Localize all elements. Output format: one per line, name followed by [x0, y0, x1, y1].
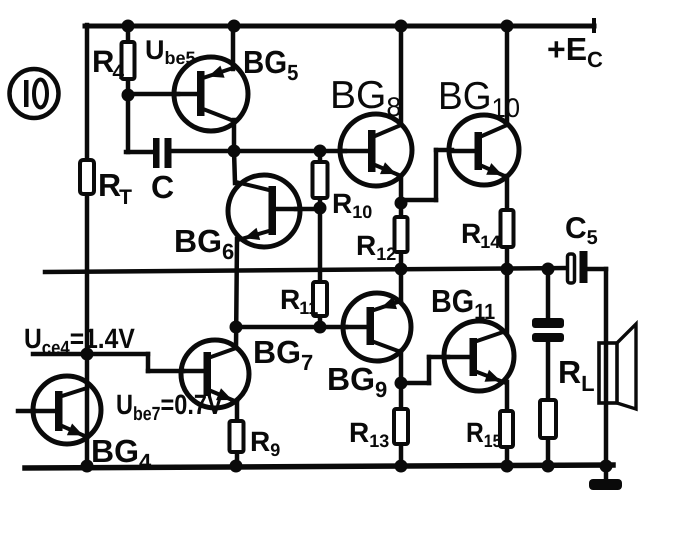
svg-text:RL: RL — [558, 354, 595, 396]
junction bottom rail at R9 — [230, 460, 243, 473]
wire R10/R11 column — [318, 151, 323, 327]
wire BG5 emitter lead from rail — [231, 25, 236, 69]
wire BG8 emitter lead to R12 — [399, 176, 404, 217]
wire C to BG8 base line — [171, 149, 345, 154]
transistor BG6 (mirrored) — [228, 175, 300, 247]
junction Uce4 line at left column — [81, 348, 94, 361]
resistor RL (Zobel) — [540, 400, 556, 438]
junction R10 top / BG8 base — [314, 145, 327, 158]
figure number 10 — [10, 69, 59, 118]
resistor R4 — [122, 42, 135, 79]
wire BG5 collector lead down — [232, 120, 237, 151]
wire bottom ground rail — [25, 465, 613, 468]
junction R4 bottom / BG5 base — [122, 89, 135, 102]
wire BG5 junction to BG6 collector — [234, 151, 235, 183]
junction R12 bottom at mid rail — [395, 263, 408, 276]
wire R11 to BG9 base line — [236, 325, 346, 330]
junction top rail at BG8 collector — [395, 20, 408, 33]
wire Uce4 line to BG7 base — [33, 354, 183, 371]
svg-text:BG6: BG6 — [174, 223, 234, 264]
wire BG9 collector down through R13 to ground rail — [399, 351, 404, 466]
junction Zobel branch at mid rail — [542, 263, 555, 276]
junction bottom rail at speaker — [600, 460, 613, 473]
capacitor C — [153, 138, 172, 168]
resistor R10 — [313, 162, 328, 198]
junction R14 bottom at mid rail — [501, 263, 514, 276]
svg-text:+EC: +EC — [547, 31, 603, 72]
svg-text:BG7: BG7 — [253, 334, 313, 375]
wire R4 column — [126, 25, 154, 152]
wire left vertical (RT column) — [85, 25, 90, 466]
svg-text:R13: R13 — [349, 417, 389, 451]
svg-text:BG5: BG5 — [243, 44, 298, 85]
svg-text:R14: R14 — [461, 218, 500, 252]
wire BG6 emitter down to BG7 collector junction — [236, 239, 237, 348]
resistor R14 — [501, 210, 514, 247]
svg-text:Ube7=0.7V: Ube7=0.7V — [116, 389, 223, 425]
junction top rail at R4 — [122, 20, 135, 33]
transistor BG4 — [33, 376, 101, 444]
svg-text:R15: R15 — [466, 417, 501, 451]
transistor BG8 — [340, 114, 412, 186]
transistor BG10 — [449, 115, 519, 185]
wire BG10 collector lead from rail — [505, 25, 510, 125]
wire C5 output to speaker column — [587, 269, 606, 466]
junction BG9 emitter / R13 top — [395, 377, 408, 390]
capacitor C5 — [568, 251, 588, 283]
resistor R15 — [500, 411, 513, 447]
capacitor Zobel C — [532, 318, 564, 342]
wire BG8 emitter to BG10 base step — [401, 150, 452, 200]
svg-text:Ube5: Ube5 — [145, 35, 196, 68]
junction BG5 emitter / C line — [228, 145, 241, 158]
junction BG8 emitter / R12 top — [395, 197, 408, 210]
resistor R12 — [395, 217, 408, 252]
speaker — [599, 324, 636, 409]
junction top rail at BG10 collector — [501, 20, 514, 33]
resistor R13 — [394, 409, 408, 444]
junction top rail at BG5 collector — [228, 20, 241, 33]
wire mid output rail — [45, 268, 568, 272]
transistor BG11 — [444, 321, 514, 391]
svg-text:Uce4=1.4V: Uce4=1.4V — [24, 323, 135, 359]
resistor R9 — [230, 421, 244, 452]
transistor BG5 (PNP) — [174, 57, 248, 131]
svg-text:BG9: BG9 — [327, 361, 387, 402]
transistor BG9 (PNP) — [343, 293, 411, 361]
wire BG9 emitter to BG11 base step — [401, 357, 448, 383]
wire R14 bottom to mid rail and BG11 collector — [505, 247, 510, 332]
svg-text:R10: R10 — [332, 188, 372, 222]
wire BG10 emitter lead to R14 — [505, 176, 510, 210]
wire BG4 base stub — [18, 409, 34, 414]
resistor RT — [80, 160, 94, 194]
junction R10 bottom / BG6 base — [314, 202, 327, 215]
wire BG7 emitter down to R9 and ground rail — [235, 402, 240, 466]
junction bottom rail at R15 — [501, 460, 514, 473]
wire BG11 emitter down through R15 to ground rail — [505, 382, 510, 466]
junction R11 bottom / BG9 base — [314, 321, 327, 334]
svg-text:R12: R12 — [356, 230, 396, 264]
junction bottom rail at R13 — [395, 460, 408, 473]
junction BG7 collector — [230, 321, 243, 334]
svg-text:BG8: BG8 — [330, 74, 401, 122]
svg-text:RT: RT — [98, 167, 132, 209]
junction bottom rail at BG4 — [81, 460, 94, 473]
junction bottom rail at Zobel — [542, 460, 555, 473]
svg-text:C5: C5 — [565, 212, 598, 249]
wire Zobel column — [546, 269, 551, 466]
transistor BG7 — [181, 340, 249, 408]
wire BG6 base line — [296, 207, 320, 212]
wire R12 bottom to mid rail and BG9 emitter — [399, 252, 404, 302]
svg-text:C: C — [151, 169, 174, 205]
wire top +Ec rail — [85, 20, 594, 31]
svg-text:BG11: BG11 — [431, 283, 495, 324]
svg-text:R9: R9 — [250, 426, 280, 460]
wire BG8 collector lead from rail — [399, 25, 404, 125]
svg-text:BG4: BG4 — [91, 433, 152, 474]
resistor R11 — [313, 282, 327, 316]
ground — [589, 466, 622, 490]
wire BG5 base line — [128, 92, 178, 97]
